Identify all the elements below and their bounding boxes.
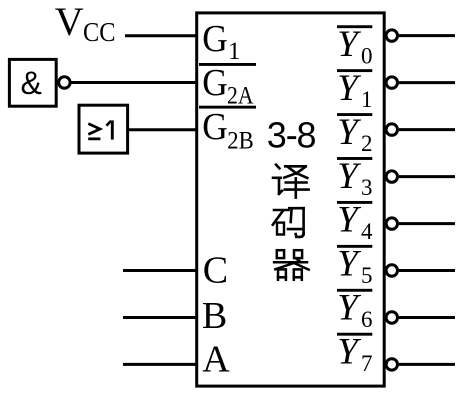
hanzi QI (device) (274, 250, 309, 280)
svg-text:8: 8 (296, 115, 316, 156)
svg-text:Y: Y (337, 156, 361, 197)
pin label G1 (202, 18, 240, 65)
label VCC (55, 0, 116, 47)
wire output Y1 (399, 81, 455, 84)
output label Y4 with overbar (337, 200, 373, 244)
svg-text:Y: Y (337, 332, 361, 373)
wire AND bubble to G2A (70, 81, 197, 84)
svg-text:G: G (202, 106, 228, 148)
svg-text:B: B (202, 295, 227, 337)
svg-text:6: 6 (361, 307, 373, 332)
output bubble Y5 (386, 265, 397, 276)
output bubble Y6 (386, 312, 397, 323)
wire input C (123, 269, 197, 272)
output label Y5 with overbar (337, 244, 373, 288)
wire output Y0 (399, 34, 455, 37)
svg-text:&: & (21, 65, 42, 101)
output bubble Y3 (386, 171, 397, 182)
svg-text:G: G (202, 62, 228, 104)
svg-text:C: C (203, 250, 228, 292)
svg-text:0: 0 (361, 43, 373, 68)
output label Y2 with overbar (337, 112, 373, 156)
output label Y7 with overbar (337, 332, 373, 376)
OR gate box (79, 105, 128, 153)
svg-text:Y: Y (337, 24, 361, 65)
svg-text:G: G (202, 18, 228, 60)
wire input A (123, 363, 197, 366)
output bubble Y1 (386, 77, 397, 88)
output bubble Y7 (386, 359, 397, 370)
svg-text:3: 3 (267, 115, 287, 156)
wire output Y7 (399, 363, 455, 366)
decoder box U1 (197, 13, 385, 386)
svg-text:A: A (202, 339, 230, 381)
wire input B (123, 316, 197, 319)
svg-text:Y: Y (337, 112, 361, 153)
AND gate output bubble (59, 77, 70, 88)
svg-text:Y: Y (337, 68, 361, 109)
svg-text:Y: Y (337, 244, 361, 285)
svg-text:2A: 2A (227, 82, 254, 109)
svg-text:5: 5 (361, 263, 373, 288)
hanzi MA (code) (273, 208, 304, 237)
output label Y0 with overbar (337, 24, 373, 68)
wire output Y4 (399, 222, 455, 225)
pin label G2A with overbar (199, 62, 256, 109)
AND gate box (9, 59, 56, 106)
output label Y1 with overbar (337, 68, 373, 112)
svg-text:Y: Y (337, 200, 361, 241)
wire output Y5 (399, 269, 455, 272)
svg-text:1: 1 (228, 38, 241, 65)
svg-text:CC: CC (83, 17, 116, 47)
svg-text:7: 7 (361, 351, 373, 376)
wire output Y6 (399, 316, 455, 319)
pin label G2B with overbar (199, 106, 256, 155)
wire output Y3 (399, 175, 455, 178)
hanzi YI (decode) (273, 165, 309, 198)
svg-text:2B: 2B (227, 128, 254, 155)
output bubble Y2 (386, 124, 397, 135)
output label Y3 with overbar (337, 156, 373, 200)
wire VCC to G1 (125, 34, 197, 37)
svg-text:V: V (55, 0, 84, 44)
output bubble Y4 (386, 218, 397, 229)
svg-text:1: 1 (361, 87, 373, 112)
svg-text:3: 3 (361, 175, 373, 200)
wire output Y2 (399, 128, 455, 131)
svg-text:Y: Y (337, 288, 361, 329)
svg-text:2: 2 (361, 131, 373, 156)
output bubble Y0 (386, 30, 397, 41)
OR gate label >=1 (88, 120, 112, 139)
output label Y6 with overbar (337, 288, 373, 332)
svg-text:4: 4 (361, 219, 373, 244)
wire OR gate to G2B (128, 128, 197, 131)
